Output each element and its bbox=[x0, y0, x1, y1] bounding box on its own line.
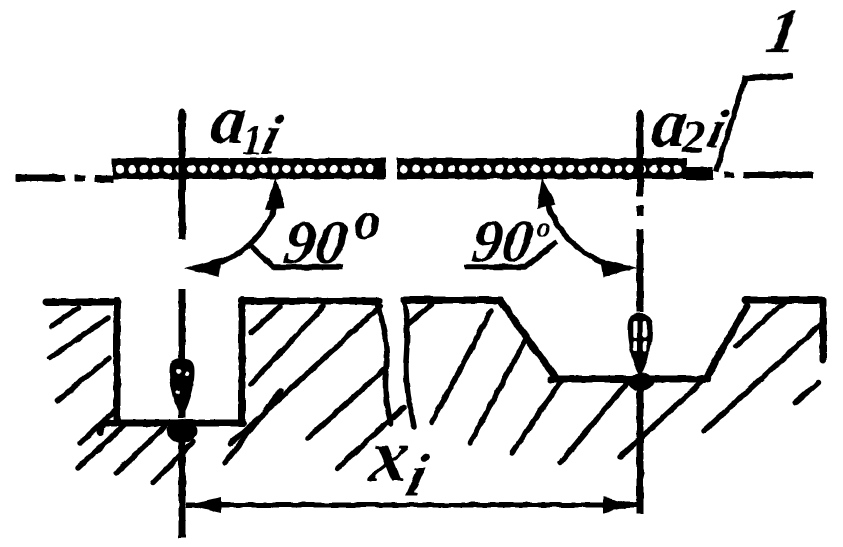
break squiggle bbox=[377, 301, 414, 427]
part outline right of squiggle bbox=[404, 300, 823, 380]
svg-text:o: o bbox=[536, 211, 551, 244]
svg-text:90: 90 bbox=[468, 208, 537, 275]
part outline left block bbox=[46, 300, 379, 432]
centerline right dash bbox=[725, 172, 813, 178]
probe tip right bbox=[628, 313, 655, 391]
hatching right of squiggle bbox=[407, 304, 526, 443]
hatching right block bbox=[704, 301, 821, 431]
dimension line xi bbox=[186, 497, 638, 513]
hatching center block bbox=[225, 306, 404, 468]
measuring band segment 1 bbox=[112, 158, 386, 179]
svg-text:90: 90 bbox=[280, 208, 352, 277]
vertical measuring line a1i bbox=[179, 112, 186, 538]
angle arc left 90 bbox=[184, 177, 343, 277]
callout leader 1 bbox=[716, 76, 793, 172]
centerline left dash bbox=[16, 178, 114, 179]
measuring band segment 2 bbox=[397, 158, 713, 180]
vertical measuring line a2i bbox=[637, 113, 644, 514]
angle arc right 90 bbox=[464, 177, 638, 277]
probe tip left bbox=[167, 359, 197, 444]
hatching under trapezoid groove bbox=[512, 375, 709, 463]
svg-text:o: o bbox=[354, 190, 381, 250]
hatching left block bbox=[50, 308, 193, 483]
